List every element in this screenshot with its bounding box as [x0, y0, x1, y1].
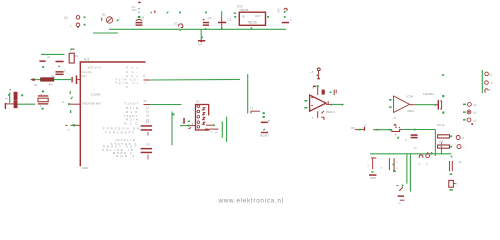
- svg-text:C2: C2: [208, 16, 212, 20]
- capacitor C1 top arrow: [137, 1, 141, 3]
- cap vertical pair: [389, 158, 394, 170]
- X3 pin 1: [197, 105, 200, 108]
- wire pin10: [150, 104, 182, 106]
- svg-text:R2O: R2O: [124, 121, 138, 125]
- crystal Q1 stub top: [42, 90, 44, 92]
- svg-text:www.elektronica.nl: www.elektronica.nl: [218, 197, 284, 204]
- X3 pin 2: [197, 110, 200, 113]
- svg-text:LM2904: LM2904: [423, 92, 434, 96]
- IC3A output wire: [326, 103, 331, 105]
- jumper pad J2: [463, 111, 466, 113]
- svg-text:IC3B: IC3B: [406, 94, 412, 98]
- svg-text:o1: o1: [489, 73, 493, 77]
- wire C4 drop: [200, 29, 202, 39]
- capacitor C3: [221, 16, 223, 22]
- svg-text:C4: C4: [198, 42, 202, 46]
- IC3A input stubs: [304, 100, 307, 102]
- wire vertical x222: [221, 121, 223, 137]
- svg-text:B: B: [268, 119, 270, 123]
- IC2 pin out: [267, 16, 269, 18]
- wire drop A: [406, 154, 408, 184]
- IC1 left pin nets: [70, 91, 71, 94]
- X3 pin 6: [203, 108, 205, 110]
- svg-text:p2: p2: [474, 111, 478, 115]
- svg-text:D1: D1: [102, 13, 106, 17]
- wire into X3: [180, 125, 189, 127]
- gnd symbol 1: [369, 174, 377, 176]
- capacitor plate C10: [56, 61, 64, 63]
- IC2 pin gnd: [251, 27, 253, 29]
- transistor T1 collector stub: [263, 112, 265, 114]
- resistor R2 (filled): [41, 78, 54, 81]
- op-amp IC3B: [394, 96, 410, 112]
- op-amp IC3A: [310, 95, 326, 111]
- svg-text:1.: 1.: [419, 162, 422, 166]
- diode D3 cathode: [364, 127, 365, 131]
- capacitor C13: [411, 134, 418, 136]
- X3 pin 9: [203, 122, 205, 124]
- connector X1 pad 1: [76, 16, 80, 20]
- IC3B input stubs: [389, 99, 392, 101]
- svg-text:T1OUT: T1OUT: [124, 102, 138, 106]
- node D1 out: [117, 20, 119, 22]
- X2 pad 2: [485, 81, 489, 85]
- mic M1 arrow wire: [8, 94, 10, 104]
- svg-text:C6: C6: [146, 143, 150, 147]
- IC3A name mark: [322, 90, 325, 95]
- wire C1 top: [138, 8, 140, 9]
- connector X3 box: [196, 105, 210, 131]
- IC2 pin in: [234, 16, 236, 18]
- svg-text:+5: +5: [310, 70, 314, 74]
- supply bar: [282, 22, 289, 24]
- svg-text:78L05: 78L05: [240, 8, 249, 12]
- wire green mid: [376, 129, 392, 131]
- mic M1 label: [9, 89, 11, 90]
- svg-text:C1+: C1+: [126, 65, 138, 69]
- X3 pin 3: [197, 116, 200, 119]
- svg-text:p1: p1: [474, 103, 478, 107]
- resistor R1 (vertical): [70, 48, 72, 50]
- jumper pad J3: [463, 119, 466, 121]
- svg-text:GND: GND: [370, 176, 376, 180]
- pad P1 under rail: [419, 155, 423, 158]
- X3 pin 4: [197, 121, 200, 124]
- svg-text:u.: u.: [399, 201, 402, 205]
- transistor T1: [263, 116, 265, 118]
- svg-text:T1: T1: [250, 107, 254, 111]
- X2 pad 1: [485, 72, 489, 76]
- connector X2 rail: [481, 70, 483, 93]
- svg-text:1n: 1n: [414, 146, 418, 150]
- svg-text:C3: C3: [227, 18, 231, 22]
- svg-text:10: 10: [143, 99, 147, 103]
- svg-text:16: 16: [141, 16, 145, 20]
- pad stub left: [5, 103, 6, 109]
- connector X1 pad 2: [76, 23, 80, 27]
- wire vertical x172: [171, 112, 173, 146]
- capacitor plate after IC3B: [436, 104, 438, 106]
- diode D4: [392, 130, 403, 132]
- pin stub X1-2: [84, 24, 86, 26]
- capacitor C12 plate 2: [76, 75, 78, 84]
- pin into IC1: [77, 79, 80, 81]
- svg-text:Q1: Q1: [34, 83, 38, 87]
- led D5 marks: [396, 185, 399, 186]
- capacitor C2 (polarized): [203, 22, 209, 24]
- svg-text:2904.1: 2904.1: [326, 110, 336, 114]
- svg-text:C: C: [405, 138, 407, 142]
- IC1 pin left y104: [70, 103, 80, 105]
- node dot: [42, 66, 44, 68]
- wire upper-left net: [41, 53, 65, 55]
- svg-text:4M: 4M: [49, 82, 54, 86]
- IC1 box left edge: [79, 62, 81, 166]
- resistor R5: [438, 135, 450, 138]
- wire vertical x441: [441, 143, 443, 155]
- wire X1 to D1: [93, 32, 118, 34]
- pin stub X1-1: [84, 16, 86, 18]
- crystal Q1 stub bottom: [42, 108, 44, 110]
- IC1 box top edge: [80, 61, 146, 63]
- svg-text:r: r: [464, 145, 465, 149]
- cap C14 right chain: [450, 161, 453, 171]
- led LD2: [457, 145, 461, 149]
- svg-text:OUT: OUT: [255, 14, 261, 18]
- svg-text:p3: p3: [474, 119, 478, 123]
- jumper pad J1: [463, 104, 466, 106]
- net arrow left: [30, 78, 35, 81]
- svg-text:IC1: IC1: [84, 58, 89, 62]
- gnd drop 1: [371, 158, 376, 169]
- IC1 pin left y125 (arrow): [71, 124, 81, 126]
- X3 pin 7: [203, 113, 205, 115]
- wire vertical x226: [226, 117, 228, 142]
- wire T1 base drop: [247, 74, 249, 114]
- pad P2 under rail: [427, 152, 429, 154]
- node C1: [138, 16, 141, 18]
- label net marks: [151, 12, 152, 13]
- svg-text:D: D: [364, 124, 366, 128]
- svg-text:R5 1k: R5 1k: [437, 123, 445, 127]
- capacitor C3 wire top: [221, 11, 223, 16]
- wire red seg: [355, 129, 365, 131]
- wire X3 right y129: [205, 128, 209, 130]
- X3 pin 5: [197, 126, 200, 129]
- mic M1 body: [14, 92, 18, 101]
- svg-text:-17: -17: [392, 116, 396, 120]
- svg-text:GND: GND: [82, 166, 88, 170]
- capacitor C1 (polarized): [136, 20, 142, 21]
- svg-text:-: -: [88, 117, 89, 121]
- wire bottom rail: [370, 153, 451, 155]
- svg-text:R3: R3: [351, 126, 355, 130]
- regulator IC2 box: [239, 12, 265, 25]
- wire mic to Q1: [18, 103, 36, 105]
- crystal Q1: [38, 95, 49, 96]
- svg-text:13: 13: [146, 109, 149, 113]
- capacitor C2 plus mark: [203, 19, 205, 20]
- svg-text:2904: 2904: [407, 109, 414, 113]
- diode D1: [106, 17, 112, 23]
- svg-text:3.3V/5V: 3.3V/5V: [91, 93, 101, 97]
- svg-text:C: C: [64, 69, 66, 73]
- wire into D1: [101, 18, 103, 22]
- IC3A power pin: [317, 85, 319, 87]
- svg-text:4u: 4u: [459, 160, 463, 164]
- svg-text:X1: X1: [64, 16, 68, 20]
- wire R2 to C12: [54, 79, 71, 81]
- IC3A gnd pin: [317, 111, 319, 118]
- svg-text:D2: D2: [174, 22, 178, 26]
- diode D2 on rail: [178, 24, 183, 28]
- capacitor C12 plate 1: [71, 77, 72, 82]
- capacitor C4: [200, 39, 202, 40]
- wire drop B: [409, 154, 411, 192]
- wire seg red: [373, 129, 376, 131]
- node mic: [21, 94, 23, 96]
- X3 pin 8: [203, 117, 205, 119]
- wire pin11: [150, 78, 240, 81]
- resistor R7 (vertical): [449, 180, 454, 187]
- capacitor C11: [56, 71, 64, 73]
- resistor R6: [438, 145, 450, 148]
- svg-text:n1: n1: [47, 55, 51, 59]
- svg-text:-: -: [213, 16, 214, 20]
- svg-text:78L05: 78L05: [247, 20, 257, 24]
- cap plate left of X3: [183, 118, 185, 124]
- gnd symbol 2: [398, 195, 404, 197]
- svg-text:C2+: C2+: [82, 74, 88, 78]
- capacitor plate C9: [39, 60, 45, 62]
- supply arrow up: [393, 123, 397, 125]
- IC3A below labels: [322, 111, 324, 114]
- transistor T1 base wire: [251, 111, 260, 113]
- wire main +U rail: [109, 28, 286, 30]
- svg-text:X1: X1: [196, 100, 200, 104]
- svg-text:RXD/TXD INV: RXD/TXD INV: [82, 102, 100, 106]
- wire X3 right y125: [206, 124, 213, 126]
- wire vertical x435: [434, 130, 436, 157]
- svg-text:10u: 10u: [132, 8, 137, 12]
- svg-text:C5: C5: [146, 120, 150, 124]
- svg-text:BC547: BC547: [260, 133, 269, 137]
- svg-text:+5V: +5V: [276, 8, 280, 13]
- capacitor C2 stub: [205, 12, 207, 14]
- X2 pad 3: [485, 89, 488, 93]
- svg-text:VCC V+ V-: VCC V+ V-: [88, 65, 102, 69]
- led LD1: [456, 136, 460, 140]
- node square: [397, 137, 399, 139]
- svg-text:2.: 2.: [426, 161, 429, 165]
- red mark: [471, 123, 473, 125]
- svg-text:12: 12: [146, 105, 149, 109]
- wire to divider: [402, 129, 435, 131]
- wire arrow to R2: [35, 79, 42, 81]
- svg-text:14: 14: [146, 114, 149, 118]
- svg-text:IN: IN: [242, 15, 245, 19]
- svg-text:R1: R1: [75, 54, 79, 58]
- svg-text:11: 11: [142, 74, 145, 78]
- wire pad to mic: [5, 103, 14, 105]
- IC3B output wire: [410, 104, 415, 106]
